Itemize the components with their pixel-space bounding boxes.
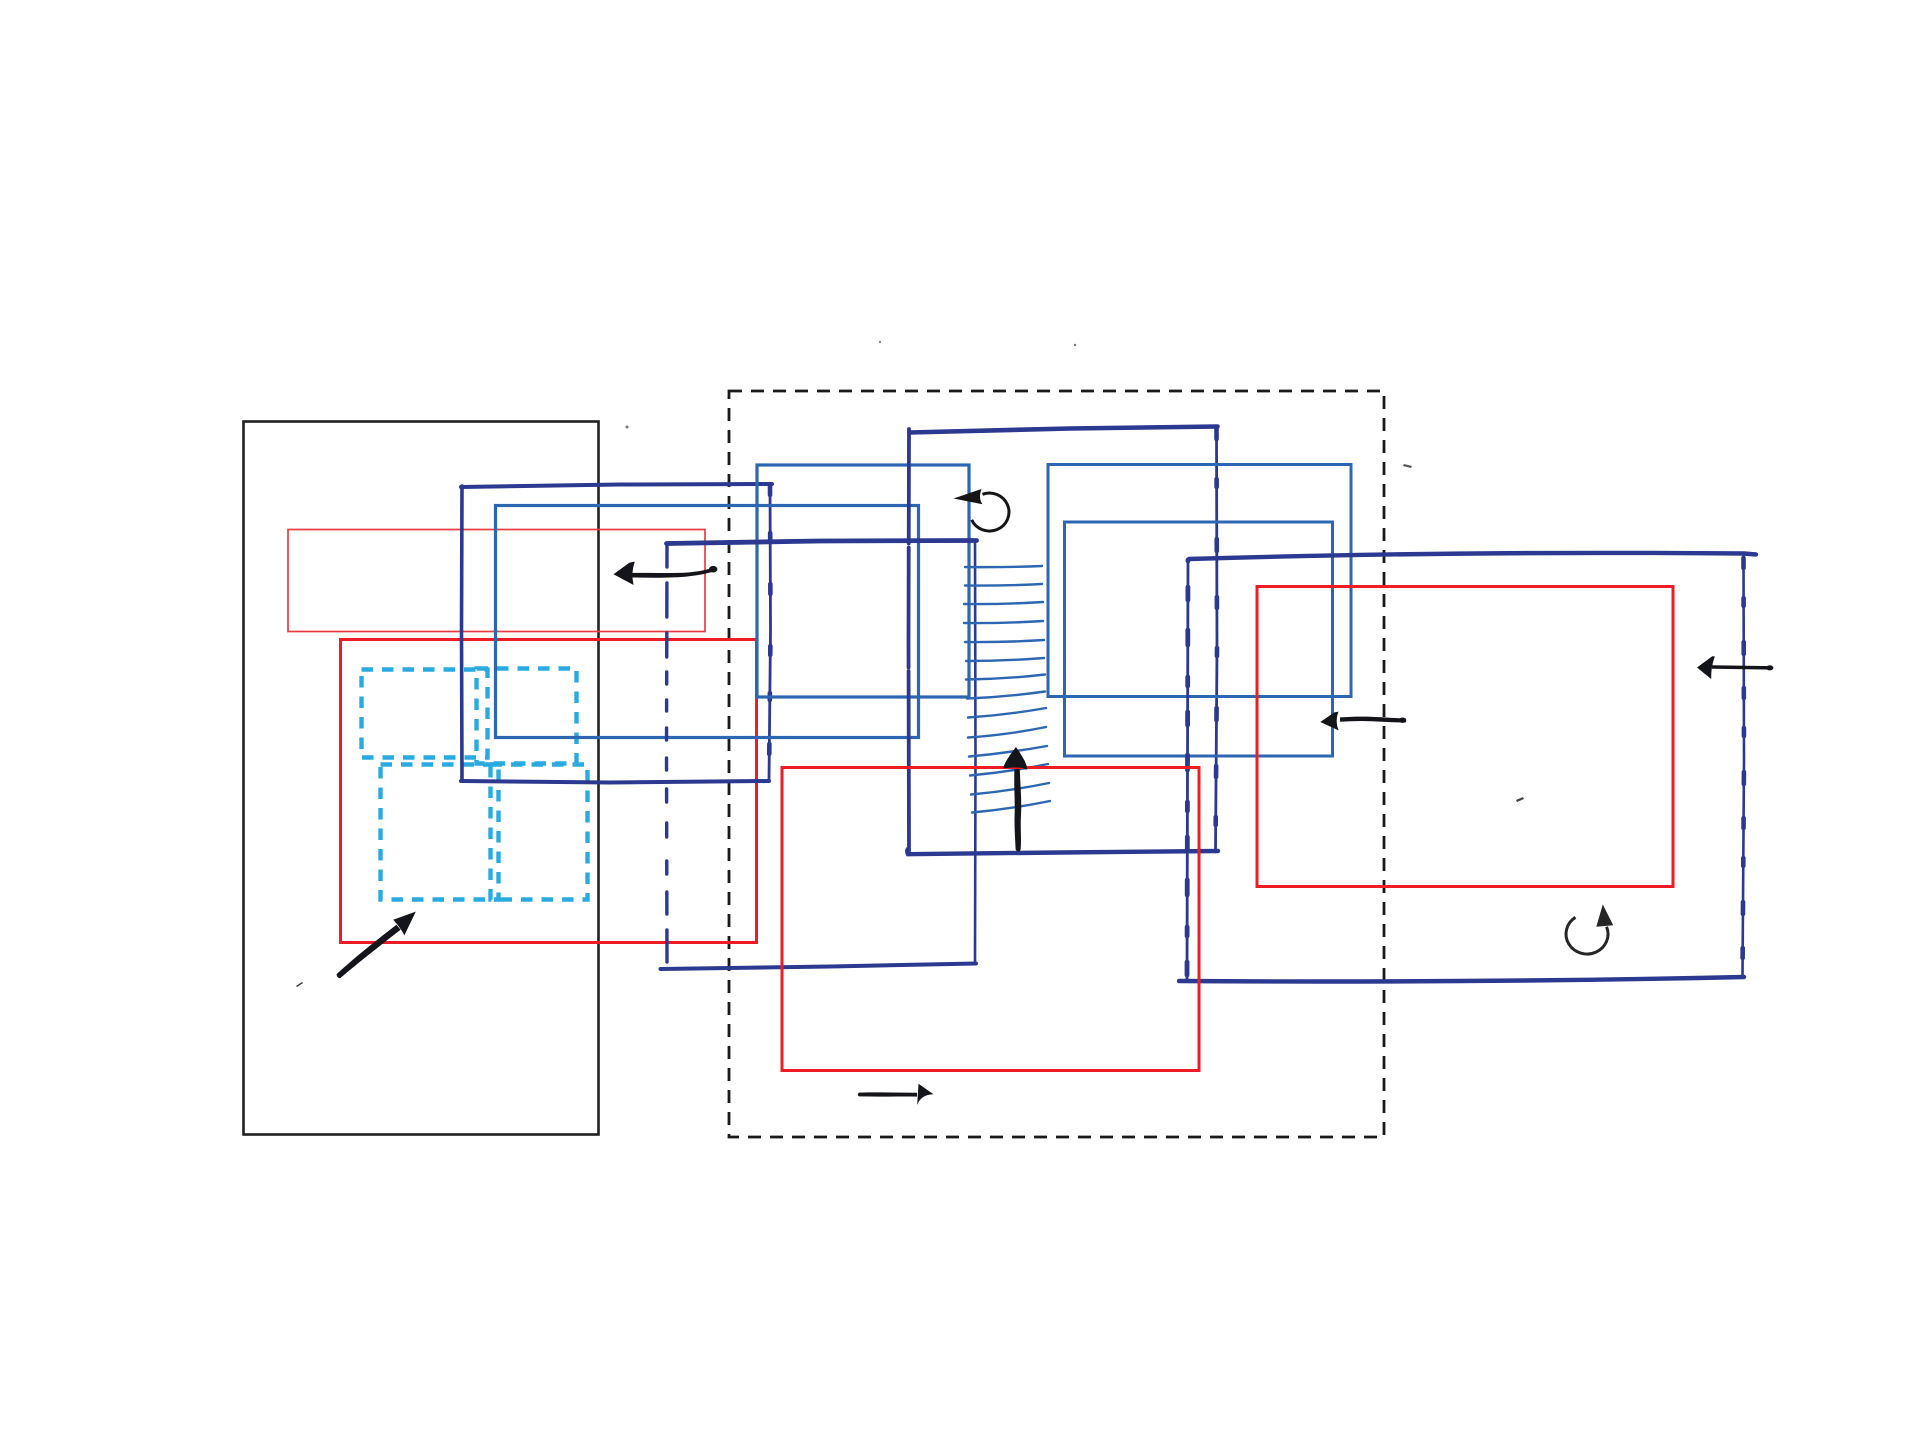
N3 left edge (dashed) [1187,560,1188,979]
N4 bottom edge [661,964,977,970]
N4 right edge (thin) [974,541,977,963]
cyan dashed rectangle CY2 (top-right of group) [477,669,577,764]
N4 left edge (dashed) [665,545,669,962]
royal blue rectangle A (middle upper) [757,465,969,697]
royal blue rectangle D (right inner) [1065,522,1333,756]
N2 top edge [910,427,1218,433]
black arrow 5 (diagonal, lower left) [337,912,416,978]
navy hand-drawn rectangle N3 (big right) [1179,553,1756,982]
black arrow 6 (pointing right, bottom middle) [858,1084,934,1105]
scan specks [296,341,1524,987]
black arrow 1 (pointing left, upper left) [614,562,718,585]
N1 top edge [461,484,772,487]
N3 bottom edge [1179,977,1744,982]
cyan dashed rectangle CY4 (bottom-right of group) [491,765,588,900]
blue hatch lines (between A and C) [964,566,1050,813]
N2 left edge [907,429,911,851]
N3 right edge [1743,554,1745,977]
N2 bottom edge [907,849,1218,854]
N1 bottom edge [461,781,769,783]
cyan dashed rectangle CY3 (bottom-left of group) [381,765,499,900]
red rectangle R1 (thin, upper left) [288,530,705,632]
circular rotation arrow (bottom right) [1566,905,1613,955]
black arrow 3 (pointing left, far right) [1697,656,1773,679]
black arrow 4 (pointing up, middle) [1004,747,1028,852]
N1 right edge [769,484,771,781]
royal blue rectangle B (wide, left middle) [496,506,919,738]
black arrow 2 (pointing left, at right red box) [1320,712,1406,731]
N2 right edge [1216,427,1218,852]
black solid rectangle (left panel) [244,422,599,1135]
cyan dashed rectangle CY1 (top-left of group) [362,670,488,758]
red rectangle R4 (right) [1257,587,1673,887]
navy rectangle N4 (middle, below) [661,541,977,970]
red rectangle R3 (bottom middle) [782,768,1199,1071]
N1 left edge [460,486,464,780]
N4 top edge [667,541,977,544]
navy hand-drawn rectangle N2 (tall middle) [907,427,1218,855]
navy hand-drawn rectangle N1 (upper left) [461,484,772,783]
N3 top edge [1189,553,1756,559]
royal blue rectangle C (right upper) [1048,465,1351,697]
circular rotation arrow (top middle) [954,489,1009,531]
black dashed rectangle (large middle frame) [729,391,1384,1137]
red rectangle R2 (left, thick) [341,640,757,943]
